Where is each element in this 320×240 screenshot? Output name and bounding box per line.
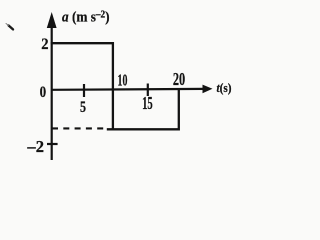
tick a=-2 (47, 143, 58, 145)
tick t=5 (83, 84, 85, 97)
svg-text:t(s): t(s) (217, 80, 232, 95)
tick t=15 (147, 84, 149, 97)
y-axis (51, 24, 53, 160)
lower pulse: bottom edge and rising edge at t=20 (107, 89, 179, 129)
dashed line at -2 level (52, 127, 104, 129)
svg-text:20: 20 (173, 69, 185, 89)
svg-text:2: 2 (41, 36, 48, 53)
svg-text:5: 5 (80, 99, 86, 116)
x-axis arrowhead (203, 85, 213, 94)
x-axis (51, 88, 204, 91)
svg-text:10: 10 (118, 71, 128, 90)
stray mark top-left (9, 26, 13, 30)
svg-text:–2: –2 (26, 137, 44, 156)
acceleration-time graph (0, 0, 240, 172)
svg-text:15: 15 (142, 93, 153, 113)
upper pulse: top edge and falling edge at t=10 (51, 43, 113, 129)
y-axis arrowhead (47, 12, 57, 28)
svg-text:0: 0 (40, 84, 47, 101)
